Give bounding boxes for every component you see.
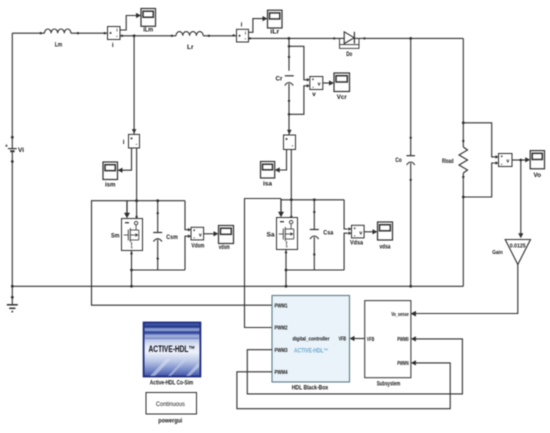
wire Cr bottom bracket to v- (289, 84, 310, 114)
svg-text:PWM0: PWM0 (397, 337, 409, 343)
svg-text:+: + (500, 154, 503, 159)
voltage measurement Vdsm (191, 227, 205, 249)
svg-text:-: - (312, 84, 314, 90)
svg-text:Lm: Lm (55, 41, 63, 48)
svg-text:v: v (359, 230, 362, 236)
svg-text:iLr: iLr (270, 29, 280, 36)
scope iLm (141, 9, 156, 34)
DC voltage source Vi (5, 144, 24, 154)
svg-text:iLm: iLm (143, 27, 153, 34)
wire PWM3 to PWM0 return path (247, 339, 462, 394)
svg-text:isa: isa (263, 180, 272, 187)
svg-text:PWMN: PWMN (397, 361, 409, 367)
svg-text:HDL Black-Box: HDL Black-Box (292, 385, 329, 392)
wire Sa cell bottom (286, 269, 344, 271)
wire i4 signal to scope isa (275, 150, 287, 173)
svg-text:Vi: Vi (18, 147, 24, 154)
wire Sa gate net (PWM2 to gate) (245, 199, 282, 328)
svg-text:Do: Do (346, 51, 352, 58)
wire Sa source down (285, 250, 288, 288)
wire left vertical bottom segment (11, 151, 14, 286)
svg-text:Vo_sense: Vo_sense (391, 312, 409, 318)
wire Lm to current meas i1 (71, 32, 108, 34)
svg-text:PWM3: PWM3 (275, 348, 288, 354)
svg-text:powergui: powergui (158, 417, 182, 424)
svg-text:PWM1: PWM1 (275, 303, 288, 309)
svg-text:v: v (199, 232, 202, 238)
wire Vdsa taps (344, 200, 351, 270)
HDL Black-Box block (272, 296, 350, 392)
wire VFB Subsystem to HDL (350, 336, 365, 341)
wire Rload bottom (462, 173, 465, 286)
svg-text:v: v (312, 91, 316, 98)
scope Vcr (334, 73, 350, 101)
wire top rail junction down to i3 (132, 36, 137, 135)
svg-text:i: i (116, 28, 117, 33)
wire diode to right corner (363, 37, 463, 40)
wire i1 to Lr (120, 34, 176, 37)
capacitor Cr (276, 76, 294, 86)
svg-text:Active-HDL Co-Sim: Active-HDL Co-Sim (150, 379, 194, 386)
capacitor Csa (310, 200, 334, 270)
wire Cr branch vertical (288, 38, 291, 70)
voltage measurement v (Vo) (499, 154, 513, 168)
wire v to scope Vo and gain tap (512, 157, 530, 162)
wire i2 to diode Do (249, 37, 340, 40)
svg-text:VFB: VFB (367, 337, 375, 343)
wire v to scope Vcr (323, 80, 334, 85)
svg-text:+: + (353, 226, 356, 231)
svg-text:Sm: Sm (111, 233, 120, 240)
svg-text:digital_controller: digital_controller (293, 336, 330, 342)
wire Cr top bracket to v+ (289, 46, 310, 81)
wire i3 to Sm drain (135, 148, 138, 218)
voltage measurement Vdsa (350, 225, 364, 246)
current measurement i4 (isa) (284, 130, 296, 150)
scope Vo (530, 151, 544, 179)
svg-text:i: i (123, 139, 125, 146)
scope isa (mirrored) (261, 162, 275, 188)
wire Vdsa to scope vdsa (364, 229, 377, 234)
subsystem input arrows (411, 311, 416, 365)
svg-text:Rload: Rload (442, 159, 454, 165)
wire Sm gate arrow (124, 201, 130, 219)
svg-text:PWM4: PWM4 (275, 370, 289, 376)
inductor Lr (176, 32, 203, 51)
svg-text:i: i (241, 21, 243, 28)
capacitor Csm (153, 201, 178, 270)
powergui block (146, 393, 197, 425)
scope iLr (268, 10, 283, 35)
svg-text:Co: Co (395, 157, 402, 164)
wire Vo to gain (518, 160, 523, 238)
svg-text:Vdsa: Vdsa (350, 239, 363, 246)
svg-text:-: - (501, 161, 503, 167)
wire Vdsm to scope vdsm (204, 231, 219, 236)
Active-HDL Co-Sim logo block (144, 323, 201, 387)
ground symbol (7, 285, 18, 312)
svg-text:Lr: Lr (187, 44, 194, 51)
svg-text:+: + (193, 228, 196, 233)
svg-text:v: v (506, 159, 509, 165)
wire left vertical top segment (11, 33, 14, 148)
svg-text:Subsystem: Subsystem (377, 380, 401, 387)
Subsystem block (365, 301, 411, 388)
svg-text:v: v (318, 82, 321, 88)
svg-text:s: s (286, 243, 288, 248)
scope vdsa (378, 222, 393, 250)
svg-text:VFB: VFB (339, 336, 347, 342)
wire right corner down (462, 38, 465, 147)
scope ism (mirrored) (103, 162, 118, 189)
svg-text:i: i (112, 42, 114, 49)
wire PWM4 to PWMN return path (237, 363, 450, 409)
svg-text:ACTIVE-HDL™: ACTIVE-HDL™ (149, 344, 196, 354)
svg-text:Csa: Csa (323, 230, 333, 237)
capacitor Co branch (395, 38, 415, 286)
wire Sm cell top (127, 199, 185, 202)
svg-text:Cr: Cr (276, 76, 284, 83)
wire Sa cell top (281, 198, 344, 201)
current measurement i2 (237, 21, 249, 42)
current measurement i3 (ism) (123, 134, 140, 148)
wire Lr to current meas i2 (203, 34, 236, 37)
svg-text:-: - (193, 235, 195, 241)
svg-text:Vcr: Vcr (337, 94, 348, 101)
diode Do (339, 32, 365, 58)
svg-text:+: + (5, 144, 8, 150)
wire i1 signal to scope iLm (120, 13, 141, 30)
svg-text:ACTIVE-HDL™: ACTIVE-HDL™ (294, 348, 329, 355)
wire Sm gate net (PWM1 to gate) (92, 201, 273, 306)
svg-text:0.0125: 0.0125 (510, 244, 526, 250)
wire Sm source down (130, 251, 133, 288)
svg-text:Vo: Vo (534, 172, 542, 179)
resistor Rload (442, 147, 468, 173)
wire i4 to Sa drain (290, 150, 293, 219)
gain block 0.0125 (492, 240, 530, 265)
svg-text:Sa: Sa (267, 232, 276, 239)
svg-text:vdsa: vdsa (380, 243, 391, 250)
svg-text:i: i (245, 31, 246, 36)
svg-text:-: - (354, 233, 356, 239)
wire bottom rail (12, 285, 463, 288)
svg-text:Gain: Gain (492, 250, 503, 256)
MOSFET Sm (111, 219, 143, 251)
svg-text:vdsm: vdsm (219, 244, 230, 251)
svg-text:Vdsm: Vdsm (191, 242, 204, 249)
wire i3 signal to scope ism (118, 148, 132, 173)
wire top rail from source to Lm (12, 32, 44, 34)
svg-text:+: + (312, 77, 315, 82)
scope vdsm (219, 226, 234, 252)
wire v(Vo) + tap (463, 123, 498, 159)
wire Cr bottom to i4 (288, 84, 291, 136)
svg-text:PWM2: PWM2 (275, 326, 288, 332)
wire gain to Vo_sense (411, 265, 518, 317)
svg-text:ism: ism (105, 182, 116, 189)
svg-text:Csm: Csm (166, 234, 178, 241)
inductor Lm (45, 29, 71, 48)
wire i2 signal to scope iLr (249, 16, 268, 32)
MOSFET Sa (267, 218, 298, 250)
wire Sa gate arrow (278, 199, 284, 218)
svg-text:s: s (131, 244, 133, 249)
wire Vdsm taps (185, 201, 191, 270)
wire Sm cell bottom (132, 269, 186, 271)
svg-text:Continuous: Continuous (156, 401, 185, 408)
wire v(Vo) - tap (463, 161, 498, 197)
current measurement i1 (108, 27, 121, 50)
voltage measurement v (Vcr) (310, 77, 323, 98)
